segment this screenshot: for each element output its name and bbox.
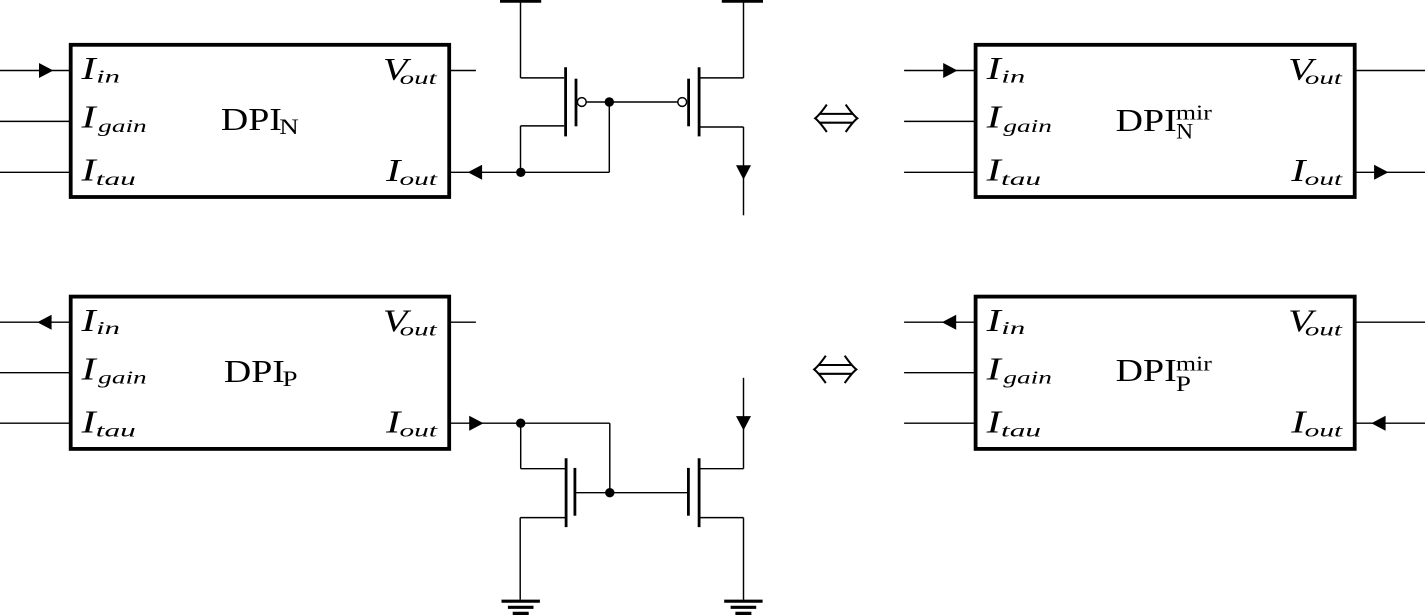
svg-text:tau: tau [1001,169,1041,189]
svg-text:I: I [80,351,98,386]
svg-text:in: in [96,318,120,338]
svg-text:out: out [400,320,439,340]
svg-text:tau: tau [1001,421,1041,441]
svg-text:out: out [1305,320,1344,340]
svg-text:out: out [400,68,439,88]
svg-text:out: out [1305,68,1344,88]
svg-text:P: P [1176,371,1191,396]
svg-text:out: out [1305,169,1344,189]
svg-text:in: in [1001,66,1025,86]
svg-text:gain: gain [98,368,147,388]
svg-text:DPI: DPI [1116,102,1177,138]
svg-text:I: I [80,303,98,338]
svg-text:out: out [400,421,439,441]
svg-text:P: P [283,366,298,391]
svg-text:N: N [279,114,299,139]
svg-text:DPI: DPI [1116,352,1177,388]
svg-text:I: I [985,51,1003,86]
svg-text:tau: tau [96,421,136,441]
svg-text:in: in [96,66,120,86]
svg-text:I: I [985,100,1003,135]
svg-text:N: N [1176,119,1193,144]
svg-text:I: I [80,51,98,86]
svg-text:out: out [1305,421,1344,441]
svg-text:tau: tau [96,169,136,189]
svg-text:I: I [80,100,98,135]
svg-text:in: in [1001,318,1025,338]
svg-text:gain: gain [1003,116,1052,136]
svg-text:DPI: DPI [224,353,285,389]
svg-text:gain: gain [1003,368,1052,388]
svg-text:DPI: DPI [221,101,282,137]
svg-text:I: I [985,351,1003,386]
svg-text:I: I [985,303,1003,338]
svg-text:out: out [400,169,439,189]
svg-text:gain: gain [98,116,147,136]
